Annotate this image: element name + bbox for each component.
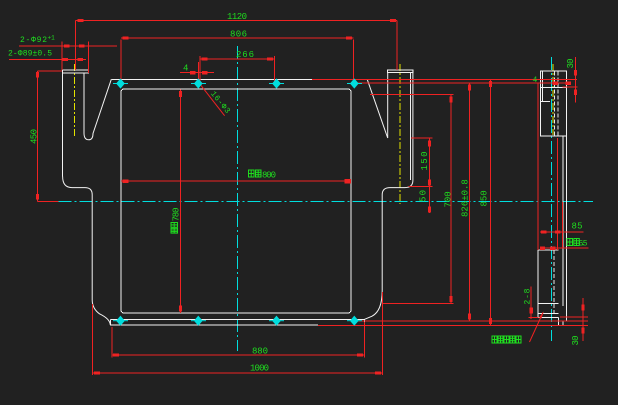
dim 806 line: [121, 37, 354, 39]
side dim thickness 6.5 line: [542, 247, 589, 249]
dim 800 line (total width): [121, 180, 351, 182]
centerline side view vertical cyan: [551, 57, 553, 341]
node hole marker top 1: [113, 79, 128, 88]
dim 50 line: [429, 187, 431, 214]
dim 2-phi92 extensions: [61, 42, 63, 71]
bottom edge lower wire: [110, 324, 318, 326]
label CJK zong (width label): [249, 170, 255, 177]
centerline left tab yellow: [73, 64, 75, 137]
bottom edge upper wire: [110, 318, 364, 320]
svg-text:880: 880: [252, 347, 268, 357]
label CJK note char 1: [492, 336, 497, 343]
svg-text:30: 30: [571, 336, 581, 346]
svg-text:4: 4: [183, 64, 188, 74]
label CJK note char 3: [504, 336, 509, 343]
side view hidden line 1: [554, 72, 556, 136]
svg-text:2-8: 2-8: [524, 288, 533, 304]
side view body inner edge: [562, 136, 564, 306]
side view lower block left edge: [537, 250, 539, 317]
dim 826 line: [468, 83, 470, 321]
left outer step profile wire: [63, 176, 111, 324]
svg-text:+1: +1: [48, 35, 56, 42]
dim 2-phi92 line: [19, 45, 117, 47]
dim 1000 extensions: [91, 304, 93, 375]
dim 4 extension: [197, 62, 199, 84]
right outer step profile wire: [364, 70, 413, 320]
left tab outer left edge wire: [62, 70, 64, 176]
dim 50 extension: [409, 186, 433, 188]
dim 806 left extension: [120, 40, 122, 87]
extension red top edge overlay y79: [312, 78, 577, 80]
svg-text:266: 266: [236, 50, 254, 60]
dim 1120 line: [75, 19, 397, 21]
dim 1120 right extension: [396, 20, 398, 70]
svg-text:806: 806: [230, 30, 247, 40]
svg-text:4: 4: [533, 76, 538, 85]
dim 700 bottom extension: [383, 302, 454, 304]
node hole marker top 2: [191, 79, 206, 88]
svg-text:850: 850: [479, 190, 489, 206]
side view upper block: [540, 87, 566, 136]
side view hidden line lower: [553, 250, 555, 313]
dim 700 line: [450, 95, 452, 303]
dim 850 line: [489, 79, 491, 325]
dim 266 left extension: [199, 56, 201, 84]
svg-text:1000: 1000: [250, 364, 269, 374]
extension red bottom y325.6: [318, 325, 588, 327]
svg-text:30: 30: [566, 59, 576, 69]
bottom edge right connector: [363, 319, 365, 324]
dim 2-phi89 line: [9, 58, 86, 60]
side dim 85 line: [540, 231, 583, 233]
svg-text:780: 780: [172, 208, 182, 222]
centerline vertical (cyan dash-dot main view): [237, 46, 239, 351]
left tab cap: [63, 70, 89, 73]
dim 700 top extension: [370, 94, 454, 96]
dim 1120 left extension: [74, 20, 76, 70]
centerline right tab yellow: [399, 64, 401, 204]
label CJK note char 5: [516, 336, 521, 343]
svg-text:85: 85: [572, 222, 583, 232]
dim 880 extensions: [111, 327, 113, 358]
node hole marker bottom 3: [269, 316, 284, 325]
side dim 30 bottom line: [582, 298, 584, 341]
dim 1000 line: [92, 372, 382, 374]
dim 806 right extension: [353, 40, 355, 82]
node hole marker bottom 1: [113, 316, 128, 325]
dim 780 line (inner height): [180, 89, 182, 313]
extension red y83 (826 + side 4-dim): [356, 82, 571, 84]
left pocket (tab right edge + diagonal to top edge): [84, 73, 111, 140]
side dim 2-8 line: [530, 287, 532, 319]
side dim 30 bottom extension: [560, 316, 588, 318]
svg-text:700: 700: [443, 191, 453, 207]
dim 880 line: [112, 354, 365, 356]
dim 4 line (top): [180, 72, 214, 74]
inner panel rectangle: [121, 89, 351, 313]
svg-text:800: 800: [262, 171, 276, 181]
top edge outer wire: [111, 78, 367, 80]
leader 16-phi3: [201, 85, 225, 116]
label CJK gao1 (780 label): [171, 223, 178, 228]
node hole marker bottom 4: [347, 316, 362, 325]
dim 150 top extension: [411, 137, 433, 139]
node hole marker bottom 2: [191, 316, 206, 325]
label CJK note char 4: [510, 336, 515, 343]
centerline side view yellow: [552, 64, 554, 135]
bottom edge left connector: [109, 319, 111, 324]
svg-text:2-Φ92: 2-Φ92: [20, 36, 47, 45]
right tab cap: [388, 70, 413, 73]
side view lower block top line: [538, 249, 559, 251]
label CJK gao2 (780 label): [171, 228, 178, 233]
side view lower block bottom edge: [538, 316, 559, 318]
side view body outer edge: [565, 136, 567, 321]
side view tab cap: [540, 71, 566, 87]
label CJK thickness zong: [567, 239, 573, 246]
side view inner cap line: [542, 71, 544, 102]
svg-text:1120: 1120: [227, 12, 247, 22]
label CJK note char 2: [498, 336, 503, 343]
right tab inner right edge wire: [409, 72, 411, 180]
extension red bottom y320.8: [355, 320, 588, 322]
side dim 30 top line: [574, 57, 576, 103]
dim 450 bottom hook to centerline: [38, 201, 59, 203]
side view lower block bottom double line: [538, 313, 559, 315]
label CJK thickness hou: [574, 239, 580, 246]
svg-text:2-Φ89±0.5: 2-Φ89±0.5: [8, 50, 52, 59]
side view lower block inner line: [538, 302, 559, 304]
dim 150 line: [429, 138, 431, 187]
dim 266 line: [200, 58, 275, 60]
svg-text:150: 150: [420, 152, 430, 171]
node hole marker top 4: [347, 79, 362, 88]
side dim 30 top extensions: [563, 86, 578, 88]
svg-text:50: 50: [419, 190, 429, 202]
dim 266 right extension: [274, 56, 276, 84]
right pocket (diagonal + tab left edge): [367, 72, 388, 138]
leader weld note: [530, 313, 544, 343]
svg-text:826±0.8: 826±0.8: [460, 179, 470, 217]
label CJK kuan (width label): [256, 170, 262, 177]
side view inner step line upper: [540, 101, 550, 103]
svg-text:6.5: 6.5: [579, 240, 588, 249]
side view hidden line 2: [557, 72, 559, 136]
side dim 85 extensions: [537, 83, 539, 250]
centerline horizontal (cyan dash-dot through part): [59, 201, 593, 203]
node hole marker top 3: [269, 79, 284, 88]
dim 450 top extension: [38, 70, 63, 72]
dim 450 line: [37, 71, 39, 202]
svg-text:450: 450: [30, 129, 40, 144]
side view bottom hook: [559, 317, 567, 325]
